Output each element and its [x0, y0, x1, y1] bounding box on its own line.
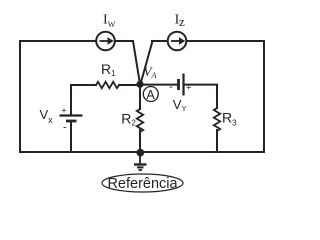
- current source IZ circle: [168, 32, 187, 51]
- resistor R3 (zigzag): [214, 108, 220, 131]
- svg-text:R1: R1: [101, 61, 116, 78]
- svg-text:VY: VY: [173, 97, 187, 113]
- battery VX long plate: [60, 114, 83, 116]
- battery VY short plate: [177, 79, 180, 90]
- wire R1 right: [119, 84, 139, 86]
- wire diagonal left into node A: [133, 41, 140, 84]
- battery VY long plate: [182, 74, 184, 96]
- wire R2 bottom: [139, 130, 141, 152]
- wire between current sources left: [115, 40, 133, 42]
- current source IW circle: [96, 32, 115, 51]
- svg-text:VA: VA: [144, 64, 157, 80]
- node label Referencia ellipse: [102, 174, 183, 192]
- svg-text:Referência: Referência: [107, 176, 178, 192]
- svg-text:+: +: [186, 83, 191, 93]
- node A dot: [136, 81, 143, 88]
- svg-text:R2: R2: [121, 111, 136, 128]
- svg-text:+: +: [61, 105, 66, 115]
- current source IW arrow: [100, 40, 108, 42]
- wire diagonal right from node A: [141, 41, 153, 84]
- wire Vy left: [141, 84, 177, 86]
- current source IZ arrow: [171, 40, 179, 42]
- svg-text:-: -: [63, 122, 67, 134]
- svg-text:Vx: Vx: [40, 107, 54, 125]
- wire Vx bottom: [70, 122, 72, 152]
- svg-text:R3: R3: [222, 110, 237, 128]
- wire left vertical: [19, 41, 21, 152]
- ground symbol: [139, 152, 141, 164]
- wire bottom bus: [20, 151, 264, 153]
- wire Vx top: [70, 85, 72, 115]
- svg-text:z: z: [179, 14, 185, 29]
- junction dot ground node: [136, 149, 144, 157]
- wire top-left horizontal: [20, 40, 96, 42]
- resistor R2 (zigzag): [137, 109, 143, 132]
- svg-text:-: -: [169, 81, 173, 93]
- wire R1 left: [71, 84, 96, 86]
- wire top-right horizontal: [187, 40, 265, 42]
- svg-text:W: W: [108, 20, 116, 29]
- wire between node diagonal and Iz: [152, 40, 168, 42]
- wire right vertical: [263, 41, 265, 152]
- battery VX short plate: [66, 120, 77, 123]
- node A circled letter: [143, 87, 158, 102]
- wire R3 bottom: [216, 130, 218, 152]
- wire Vy right with corner down to R3: [184, 85, 217, 108]
- wire R2 top: [139, 85, 141, 109]
- resistor R1 (zigzag): [96, 82, 119, 88]
- svg-text:A: A: [146, 88, 155, 102]
